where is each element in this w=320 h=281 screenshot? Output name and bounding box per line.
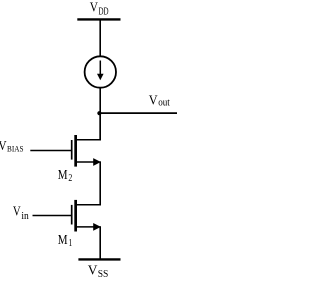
current source I1 <box>85 56 116 87</box>
label M2 <box>58 168 73 184</box>
svg-text:V: V <box>13 205 21 220</box>
label VDD <box>90 1 109 18</box>
label Vin <box>13 205 29 222</box>
svg-text:2: 2 <box>68 173 72 184</box>
svg-text:BIAS: BIAS <box>7 144 24 153</box>
svg-text:V: V <box>90 1 98 16</box>
power VDD rail bar <box>77 18 120 20</box>
wire Vin to M1 gate <box>33 215 72 217</box>
wire M1 source to VSS <box>99 226 101 259</box>
transistor M2 <box>72 135 101 167</box>
svg-text:V: V <box>0 139 7 154</box>
label VSS <box>88 264 109 281</box>
power VSS rail bar <box>78 258 120 260</box>
svg-text:in: in <box>21 211 28 222</box>
wire M2 drain up to node <box>99 113 101 140</box>
svg-text:M: M <box>58 168 68 183</box>
transistor M1 <box>72 200 101 232</box>
svg-text:DD: DD <box>99 6 109 17</box>
svg-text:1: 1 <box>69 238 73 249</box>
svg-text:SS: SS <box>98 269 109 280</box>
node Vout junction dot <box>97 111 101 115</box>
label VBIAS <box>0 139 24 154</box>
svg-text:M: M <box>58 233 68 248</box>
svg-text:V: V <box>88 264 98 279</box>
wire current source to node <box>99 88 101 140</box>
label Vout <box>149 94 170 109</box>
wire M2 source to M1 drain <box>99 161 101 205</box>
svg-text:V: V <box>149 94 158 109</box>
wire Vout <box>99 112 177 114</box>
wire VDD to current source <box>99 19 101 56</box>
label M1 <box>58 233 73 249</box>
svg-text:out: out <box>158 97 170 108</box>
wire VBIAS to M2 gate <box>30 150 71 152</box>
